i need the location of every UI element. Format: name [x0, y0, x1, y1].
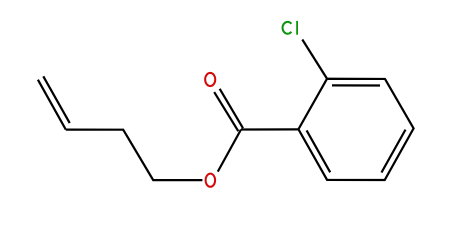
double bond C1'=C2' vinyl second line	[43, 76, 69, 123]
wire ring C2 to Cl	[302, 40, 327, 79]
atom O ester (red)	[206, 174, 216, 187]
carbonyl C=O double bond line left	[214, 92, 238, 131]
wire carbonyl C to ring C1	[241, 128, 298, 130]
ring double bond C4=C5 inner line	[382, 130, 406, 173]
atom label Cl (green): C arc	[283, 22, 292, 34]
atom O carbonyl (red)	[205, 73, 215, 86]
double bond C1'=C2' vinyl main line	[38, 80, 66, 130]
ring double bond C2=C3 inner line	[332, 84, 380, 86]
wire chain CH2-CH2 to ester O	[66, 130, 203, 181]
wire ester O to carbonyl C	[218, 130, 241, 172]
benzene ring outline	[298, 79, 413, 180]
ring double bond C1=C6 inner line	[307, 130, 331, 172]
carbonyl C=O double bond line right	[220, 89, 243, 128]
atom label Cl (green): l bar	[296, 21, 298, 35]
